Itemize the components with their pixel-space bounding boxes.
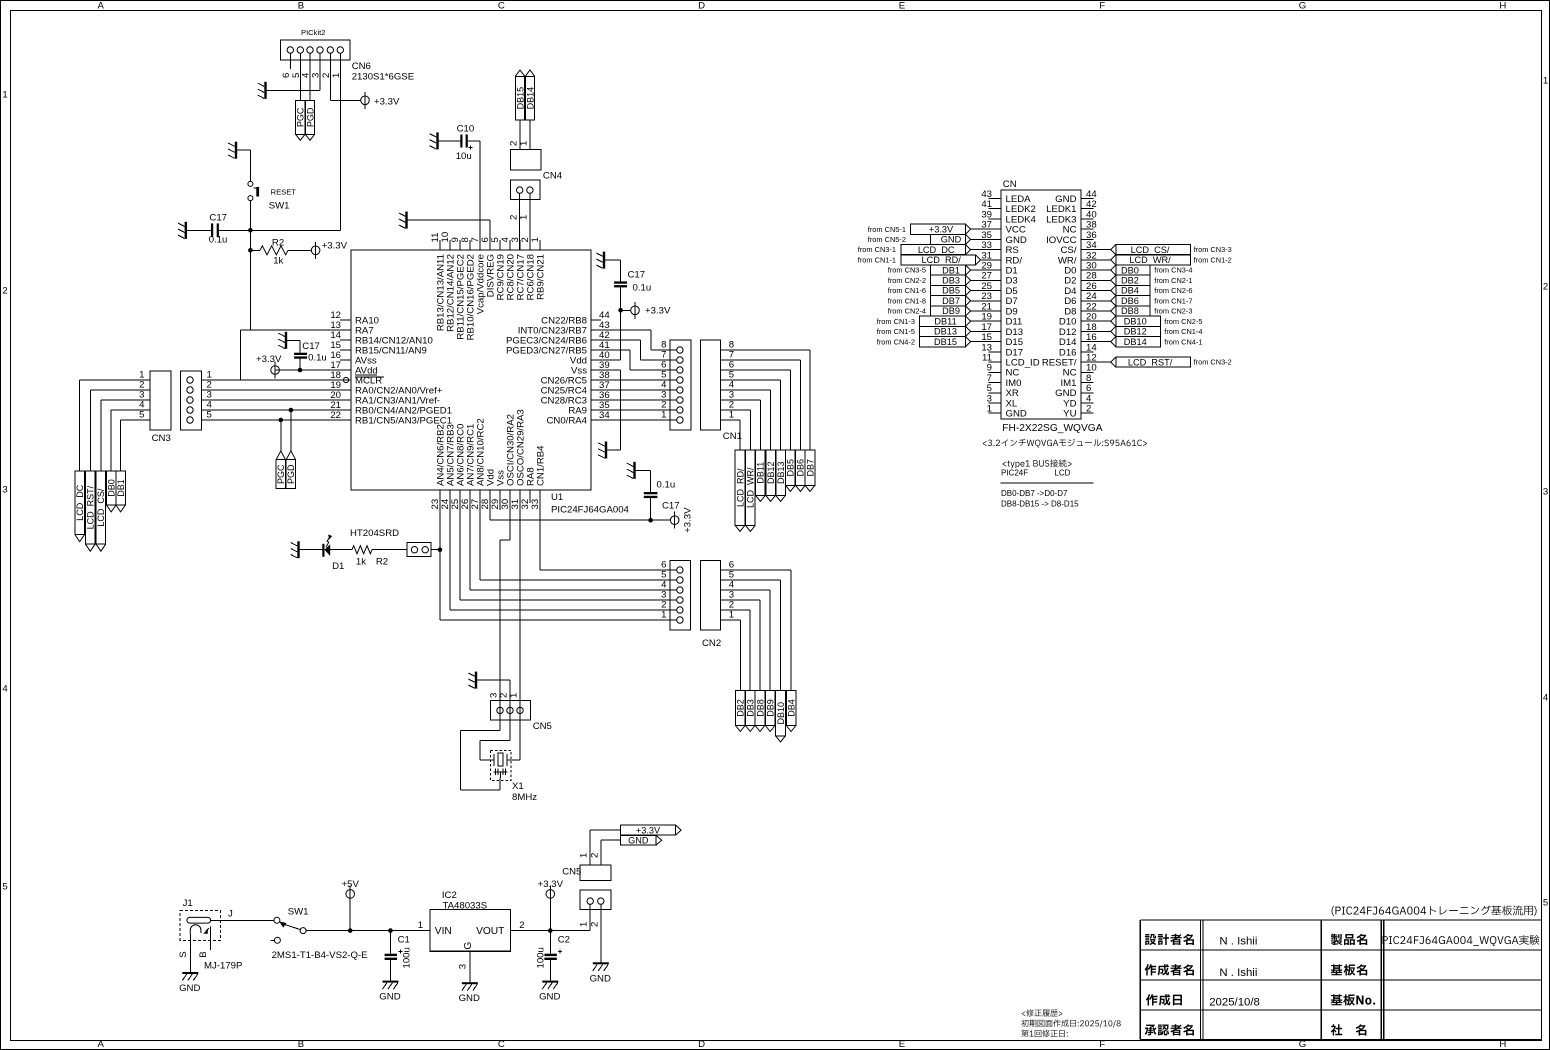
svg-text:2: 2	[2, 285, 7, 296]
capacitor C10 10u (Vcap)	[439, 124, 481, 163]
net flag LCD_CS/	[96, 471, 106, 551]
svg-text:C17: C17	[209, 213, 227, 224]
svg-text:0.1u: 0.1u	[657, 480, 676, 491]
net flag DB6 (CN1)	[796, 450, 806, 491]
svg-text:D: D	[698, 1039, 705, 1050]
svg-text:U1: U1	[551, 492, 563, 503]
junction C17 bottom	[648, 518, 653, 523]
svg-text:from CN5-1: from CN5-1	[868, 225, 906, 234]
svg-text:+3.3V: +3.3V	[683, 507, 694, 533]
svg-text:1: 1	[418, 920, 423, 931]
svg-text:DB4: DB4	[786, 699, 796, 717]
svg-text:HT204SRD: HT204SRD	[350, 528, 399, 539]
svg-text:0.1u: 0.1u	[633, 282, 652, 293]
net flag LCD_RD/ (CN1)	[735, 450, 745, 531]
net flag DB1	[116, 471, 126, 512]
capacitor C17 (Vdd right, 0.1u)	[605, 260, 651, 310]
wire pin 43 to CN1-8	[601, 330, 677, 350]
frame row labels	[2, 75, 1549, 908]
wires CN3 2-5 to U1 pins 19-22	[201, 390, 351, 420]
svg-text:2: 2	[1543, 281, 1548, 292]
svg-text:1k: 1k	[273, 256, 283, 267]
junction C1	[388, 928, 393, 933]
svg-text:1: 1	[729, 410, 734, 421]
svg-text:from CN3-1: from CN3-1	[858, 245, 896, 254]
wire CN3-1 to MCLR	[201, 379, 343, 381]
net flag DB12 (CN1)	[766, 450, 776, 501]
svg-text:DB14: DB14	[1124, 337, 1147, 347]
power +3.3V below U1	[651, 507, 694, 533]
svg-text:from CN4-1: from CN4-1	[1164, 337, 1202, 346]
regulator IC2 TA48033S	[418, 890, 525, 951]
CN left pin stubs	[989, 199, 1001, 414]
MCLR bubble pin 18	[343, 377, 348, 382]
svg-text:DB11: DB11	[756, 462, 766, 484]
svg-text:34: 34	[599, 410, 610, 421]
toggle switch SW1 2MS1	[271, 907, 368, 962]
net flag GND (to CN pin)	[868, 234, 1001, 244]
svg-text:2025/10/8: 2025/10/8	[1209, 997, 1260, 1009]
wire C10 to Vcap pin 7	[479, 141, 481, 250]
svg-text:33: 33	[530, 499, 541, 510]
wire PGD flag to pin 21	[290, 410, 292, 451]
wire ground to SW1	[237, 150, 250, 181]
svg-text:2: 2	[589, 922, 600, 927]
svg-text:DB2: DB2	[1121, 276, 1139, 286]
svg-text:GND: GND	[628, 836, 649, 846]
wire CN6 pin2 to +3.3V	[330, 53, 360, 100]
svg-text:R2: R2	[272, 237, 284, 248]
U1 right pin stubs	[591, 320, 601, 420]
svg-text:DB10: DB10	[1124, 316, 1147, 326]
connector CN5 (crystal)	[488, 693, 552, 732]
resistor R2 1k (MCLR pullup)	[250, 237, 311, 266]
svg-text:DB8: DB8	[1121, 306, 1139, 316]
connector CN3	[139, 370, 212, 444]
power +3.3V right of U1	[621, 302, 671, 319]
svg-text:DB5: DB5	[942, 286, 960, 296]
title block table	[1140, 920, 1541, 1040]
wire CN6 pin5 to PGC flag	[299, 53, 301, 100]
svg-text:YU: YU	[1063, 409, 1076, 420]
connector CN2	[661, 560, 735, 649]
wire +3.3V flag to CN5-1	[590, 830, 620, 865]
net flag DB10 (from CN pin)	[1081, 316, 1203, 326]
resistor R2 1k (LED)	[352, 546, 407, 568]
net flag DB11 (to CN pin)	[877, 316, 1001, 326]
svg-text:CN6: CN6	[352, 61, 371, 72]
svg-text:H: H	[1499, 1039, 1506, 1050]
U1 left pin stubs	[340, 320, 351, 420]
svg-text:CN3: CN3	[152, 433, 171, 444]
svg-text:CN5: CN5	[533, 721, 552, 732]
LCD connector CN FH-2X22SG_WQVGA	[1001, 179, 1103, 434]
net flag PGD (at U1)	[286, 451, 296, 489]
microcontroller U1 PIC24FJ64GA004	[330, 232, 629, 516]
net flag LCD_WR/ (from CN pin)	[1081, 255, 1232, 265]
svg-text:DB0: DB0	[1121, 265, 1139, 275]
svg-text:100u: 100u	[536, 947, 547, 968]
svg-text:RESET: RESET	[271, 187, 297, 196]
net flag +3.3V (power out)	[621, 825, 682, 835]
svg-text:100u: 100u	[402, 947, 413, 968]
ground at DISVREG	[399, 212, 408, 229]
net flag DB3 (to CN pin)	[888, 275, 1001, 285]
wire CN5-1 to crystal right	[507, 759, 520, 761]
net flag LCD_DC (to CN pin)	[858, 245, 1001, 255]
svg-text:from CN1-2: from CN1-2	[1194, 255, 1232, 264]
svg-text:LCD_WR/: LCD_WR/	[746, 467, 756, 508]
svg-text:DB10: DB10	[776, 702, 786, 725]
net flag DB7 (CN1)	[805, 450, 815, 491]
ground at C17 right	[596, 252, 605, 269]
svg-text:DB0-DB7 ->D0-D7: DB0-DB7 ->D0-D7	[1001, 489, 1068, 498]
svg-text:DB15: DB15	[515, 87, 525, 110]
ground at CN6 pin3	[258, 82, 267, 99]
svg-text:MJ-179P: MJ-179P	[204, 961, 242, 972]
power +3.3V at AVdd	[256, 354, 282, 379]
connector CN5 (power out)	[562, 853, 611, 927]
svg-text:A: A	[97, 1039, 104, 1050]
wire pin 33 to CN2-6	[540, 503, 677, 570]
svg-text:N . Ishii: N . Ishii	[1219, 967, 1257, 979]
power +3.3V at VOUT	[538, 879, 564, 931]
crystal X1 8MHz	[490, 750, 537, 803]
wire CN5-2 to crystal left	[480, 741, 510, 760]
ground above reset switch	[228, 142, 237, 159]
svg-text:LCD_WR/: LCD_WR/	[1129, 255, 1171, 265]
power ground at IC2	[459, 982, 480, 1004]
svg-text:from CN1-3: from CN1-3	[877, 317, 915, 326]
wires CN3 left to LCD net flags	[80, 380, 150, 471]
wire pin 27 to CN2-5	[480, 503, 677, 580]
wire CN5-3 to crystal	[460, 730, 500, 790]
svg-text:CN1/RB4: CN1/RB4	[535, 445, 546, 486]
wire DB14 to CN4-1	[529, 120, 531, 150]
svg-text:+5V: +5V	[342, 879, 360, 890]
svg-text:from CN1-8: from CN1-8	[888, 296, 926, 305]
svg-text:DB3: DB3	[746, 699, 756, 717]
wire junction down to R2	[248, 230, 253, 252]
label HT204SRD	[350, 528, 399, 539]
svg-text:+3.3V: +3.3V	[636, 825, 661, 835]
title block labels	[1145, 934, 1376, 1036]
svg-text:from CN2-5: from CN2-5	[1164, 317, 1202, 326]
svg-text:DB7: DB7	[805, 459, 815, 477]
net flag DB0	[106, 471, 116, 512]
svg-text:0.1u: 0.1u	[308, 353, 327, 364]
svg-text:C10: C10	[457, 124, 475, 135]
wire PGC flag to pin 22	[280, 420, 282, 451]
net flag DB3 (CN2)	[745, 691, 755, 732]
capacitor C17 (reset, 0.1u)	[187, 213, 251, 246]
ground at Vss right	[598, 442, 607, 459]
svg-text:2: 2	[519, 920, 524, 931]
wire GND flag to CN5-2	[601, 840, 621, 865]
ground at C17 reset	[178, 222, 187, 239]
svg-text:CN4: CN4	[543, 170, 563, 181]
svg-text:1: 1	[1543, 75, 1548, 86]
wire ground to DISVREG pin 6	[408, 220, 491, 250]
svg-text:CN5: CN5	[562, 867, 581, 878]
svg-text:LCD: LCD	[1054, 469, 1070, 478]
wire Vss pin 39 to ground	[601, 370, 621, 450]
svg-text:F: F	[1099, 1039, 1105, 1050]
svg-text:R2: R2	[376, 557, 388, 568]
svg-text:GND: GND	[1006, 409, 1027, 420]
net flag DB0 (from CN pin)	[1081, 265, 1193, 275]
title block values	[1209, 935, 1539, 1008]
wire RA7 row	[241, 329, 352, 331]
wire OSCI pin 30 to CN5-3	[500, 503, 510, 730]
net flag DB13 (to CN pin)	[877, 326, 1001, 336]
net flag DB9 (to CN pin)	[888, 306, 1001, 316]
wire CN6 pin6 stub	[289, 53, 291, 69]
LCD module subtitle	[983, 439, 1147, 448]
net flag PGC (PICkit2 clock)	[296, 100, 306, 140]
svg-text:DB13: DB13	[934, 327, 957, 337]
svg-text:from CN1-6: from CN1-6	[888, 286, 926, 295]
svg-text:SW1: SW1	[288, 907, 309, 918]
wire CN5-1 to +3.3V rail	[589, 904, 591, 930]
svg-text:PGC: PGC	[276, 464, 286, 484]
capacitor C17 (AVdd, 0.1u)	[287, 340, 327, 370]
svg-text:IC2: IC2	[442, 890, 457, 901]
svg-text:J1: J1	[183, 898, 193, 909]
wire Vss pin 29 stub	[499, 503, 501, 510]
U1 top pin stubs	[440, 240, 540, 250]
svg-text:C17: C17	[628, 270, 646, 281]
wire OSCO pin 31 to CN5-1	[519, 503, 521, 760]
wire +3.3V to AVdd pin 17	[275, 368, 351, 373]
svg-text:B: B	[198, 951, 209, 957]
net flag LCD_RST/ (from CN pin)	[1081, 357, 1232, 367]
ground at CN5 crystal	[468, 672, 477, 689]
sheet note PIC24FJ64GA004 training board	[1332, 906, 1537, 917]
svg-text:1: 1	[2, 89, 7, 100]
svg-text:GND: GND	[590, 973, 611, 984]
svg-text:VOUT: VOUT	[476, 926, 504, 937]
wires CN1 right to DB flags	[721, 350, 811, 450]
svg-text:+3.3V: +3.3V	[538, 879, 564, 890]
svg-text:from CN3-2: from CN3-2	[1194, 358, 1232, 367]
svg-text:from CN3-5: from CN3-5	[888, 266, 926, 275]
svg-text:1: 1	[530, 237, 541, 242]
svg-text:from CN1-5: from CN1-5	[877, 327, 915, 336]
wire IC2 G pin 3 to ground	[458, 951, 470, 982]
net flag +3.3V (to CN pin)	[868, 224, 1001, 234]
power +3.3V at CN6	[361, 92, 400, 109]
svg-text:LCD_RST/: LCD_RST/	[1128, 357, 1173, 367]
svg-text:1: 1	[661, 610, 666, 621]
wire MCLR net to pin 18	[241, 250, 251, 380]
junction +5V	[348, 928, 353, 933]
LED D1	[300, 535, 353, 572]
svg-text:from CN2-1: from CN2-1	[1154, 276, 1192, 285]
svg-text:LCD_CS/: LCD_CS/	[1131, 245, 1170, 255]
wire +3.3V rail to Vdd pin 40	[599, 310, 621, 360]
svg-text:X1: X1	[512, 781, 524, 792]
svg-text:2MS1-T1-B4-VS2-Q-E: 2MS1-T1-B4-VS2-Q-E	[272, 950, 368, 961]
net flag DB5 (CN1)	[786, 450, 796, 491]
svg-text:H: H	[1499, 1, 1506, 12]
svg-text:PGD: PGD	[286, 464, 296, 484]
svg-text:LCD_RD/: LCD_RD/	[735, 468, 745, 507]
svg-text:B: B	[298, 1, 304, 12]
svg-text:PICkit2: PICkit2	[301, 28, 325, 37]
svg-text:from CN2-3: from CN2-3	[1154, 307, 1192, 316]
wire CN4-2 to RC7 pin 3	[519, 193, 521, 250]
svg-text:DB9: DB9	[766, 699, 776, 717]
net flag DB14 (from CN pin)	[1081, 337, 1203, 347]
net flag DB8 (from CN pin)	[1081, 306, 1193, 316]
svg-text:CN: CN	[1003, 179, 1017, 190]
svg-text:PIC24F: PIC24F	[1001, 469, 1028, 478]
svg-text:+3.3V: +3.3V	[645, 306, 671, 317]
revision history note	[1021, 1009, 1120, 1037]
net flag DB5 (to CN pin)	[888, 285, 1001, 295]
svg-text:F: F	[1099, 1, 1105, 12]
junction C2	[548, 928, 553, 933]
svg-text:DB11: DB11	[934, 316, 956, 326]
capacitor C2 100u	[536, 931, 570, 981]
CN pin labels	[981, 189, 1097, 420]
wires CN2 right to DB flags	[721, 570, 792, 691]
svg-text:5: 5	[207, 410, 212, 421]
svg-text:4: 4	[1543, 692, 1549, 703]
svg-text:from CN3-4: from CN3-4	[1154, 266, 1192, 275]
svg-text:C: C	[498, 1039, 505, 1050]
svg-text:from CN2-2: from CN2-2	[888, 276, 926, 285]
svg-text:+3.3V: +3.3V	[929, 224, 954, 234]
svg-text:C1: C1	[398, 935, 410, 946]
net flag DB7 (to CN pin)	[888, 296, 1001, 306]
svg-text:1: 1	[661, 410, 666, 421]
svg-text:DB3: DB3	[942, 276, 960, 286]
net flag LCD_CS/ (from CN pin)	[1081, 245, 1232, 255]
svg-text:DB9: DB9	[942, 306, 960, 316]
svg-text:1k: 1k	[356, 557, 366, 568]
svg-text:5: 5	[139, 410, 144, 421]
wire Vdd pin 28 to +3.3V	[490, 503, 651, 520]
svg-text:1: 1	[519, 141, 530, 146]
connector CN4	[509, 141, 563, 220]
junction PGC tap	[279, 418, 284, 423]
svg-text:G: G	[463, 942, 474, 950]
power ground at C1	[379, 981, 400, 1003]
wire CN6 pin1 down to reset net	[250, 53, 340, 230]
net flag DB6 (from CN pin)	[1081, 296, 1193, 306]
svg-text:2130S1*6GSE: 2130S1*6GSE	[352, 72, 414, 83]
svg-text:D: D	[698, 1, 705, 12]
power ground at C2	[539, 981, 560, 1003]
wire pin 25 to CN2-3	[460, 503, 677, 600]
svg-text:CN1: CN1	[723, 431, 742, 442]
svg-text:GND: GND	[179, 983, 200, 994]
svg-text:GND: GND	[539, 992, 560, 1003]
net flag DB8 (CN2)	[755, 691, 765, 732]
net flag DB9 (CN2)	[765, 691, 775, 732]
svg-text:DB2: DB2	[736, 699, 746, 717]
svg-text:+3.3V: +3.3V	[322, 241, 348, 252]
svg-text:DB6: DB6	[796, 459, 806, 477]
wire pin 24 to CN2-2	[450, 503, 677, 610]
svg-text:DB12: DB12	[1124, 327, 1147, 337]
jumper JP (LED enable)	[407, 543, 440, 557]
net flag DB13 (CN1)	[776, 450, 786, 501]
wire CN6 pin3 to ground	[267, 53, 321, 90]
svg-text:0.1u: 0.1u	[209, 235, 228, 246]
wire pin 26 to CN2-4	[470, 503, 677, 590]
svg-text:3: 3	[458, 964, 469, 969]
junction PGD tap	[289, 408, 294, 413]
svg-text:5: 5	[1543, 897, 1548, 908]
svg-text:J: J	[228, 909, 233, 920]
svg-text:DB4: DB4	[1121, 286, 1139, 296]
svg-text:CN2: CN2	[702, 638, 721, 649]
net flag DB4 (from CN pin)	[1081, 285, 1193, 295]
svg-text:22: 22	[330, 410, 341, 421]
svg-text:from CN3-3: from CN3-3	[1194, 245, 1232, 254]
power +3.3V at R2	[311, 241, 347, 259]
svg-text:PGD: PGD	[305, 107, 315, 127]
svg-text:DB15: DB15	[934, 337, 957, 347]
net flag DB2 (CN2)	[736, 691, 746, 732]
svg-text:from CN2-6: from CN2-6	[1154, 286, 1192, 295]
svg-text:1: 1	[509, 693, 520, 698]
svg-text:10u: 10u	[456, 151, 472, 162]
svg-text:G: G	[1299, 1, 1306, 12]
net flag GND (power out)	[621, 836, 662, 846]
svg-text:LCD_RD/: LCD_RD/	[922, 255, 962, 265]
U1 bottom pin stubs	[440, 490, 540, 503]
svg-text:GND: GND	[459, 993, 480, 1004]
svg-text:S: S	[178, 951, 189, 957]
svg-text:E: E	[899, 1039, 905, 1050]
svg-text:DB13: DB13	[776, 461, 786, 484]
ground at C10	[430, 132, 439, 149]
net flag DB15 (to CN pin)	[877, 337, 1001, 347]
pushbutton SW1 RESET	[248, 181, 296, 211]
svg-text:DB8: DB8	[755, 699, 765, 717]
svg-text:1: 1	[579, 853, 590, 858]
svg-text:CN0/RA4: CN0/RA4	[546, 415, 587, 426]
net flag DB12 (from CN pin)	[1081, 326, 1203, 336]
svg-text:+3.3V: +3.3V	[256, 354, 282, 365]
wire J1 to SW1	[211, 919, 275, 921]
net flag DB14	[525, 70, 535, 120]
power ground at J1	[179, 972, 200, 994]
wire VOUT to CN5	[511, 930, 591, 932]
net flag LCD_WR/ (CN1)	[746, 450, 756, 531]
svg-text:from CN4-2: from CN4-2	[877, 337, 915, 346]
svg-text:from CN1-7: from CN1-7	[1154, 296, 1192, 305]
svg-text:C: C	[498, 1, 505, 12]
wire CN5-2 to ground	[600, 904, 602, 962]
net flag PGD (PICkit2 data)	[305, 100, 315, 140]
svg-text:DB12: DB12	[766, 461, 776, 484]
svg-text:PIC24FJ64GA004: PIC24FJ64GA004	[551, 505, 630, 516]
svg-text:3: 3	[1543, 486, 1548, 497]
wire DB15 to CN4-2	[519, 120, 521, 150]
wire ground to CN5-2	[477, 680, 510, 741]
svg-text:C17: C17	[302, 341, 320, 352]
power ground at CN5	[590, 962, 611, 984]
net flag PGC (at U1)	[276, 451, 286, 489]
svg-text:C17: C17	[662, 501, 680, 512]
svg-text:LCD_RST/: LCD_RST/	[86, 485, 96, 529]
svg-text:DB8-DB15 -> D8-D15: DB8-DB15 -> D8-D15	[1001, 500, 1079, 509]
